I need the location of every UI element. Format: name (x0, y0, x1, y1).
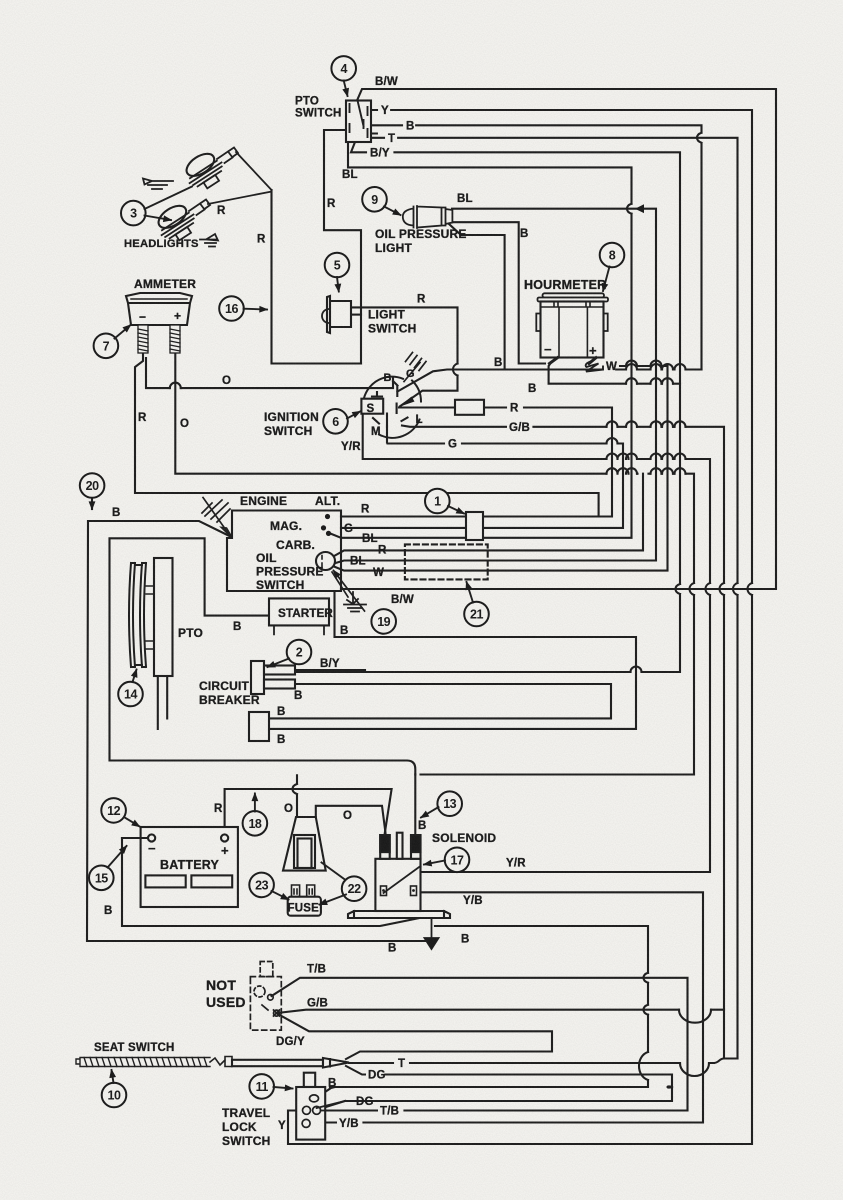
battery box (141, 827, 238, 907)
callout circle 21 (464, 602, 489, 627)
wire B ignition ground line to PTO B vertical (398, 370, 702, 392)
label T background (396, 1058, 407, 1072)
wire G/B bumps (607, 421, 686, 427)
leader line oil pressure switch to ground (332, 572, 348, 597)
headlight lower tail and wire (189, 192, 272, 216)
solenoid body (375, 859, 420, 911)
wire B net notch at T crossing (697, 133, 702, 143)
callout arrow 4 (344, 81, 348, 97)
wire Y/B travel lock lead (306, 1121, 312, 1124)
wire B net PTO down to ignition B line (371, 125, 702, 369)
label Y/B background (337, 1118, 362, 1132)
oil pressure switch (316, 552, 335, 570)
travel lock TB lead (321, 1110, 330, 1112)
callout arrow 14 (133, 670, 137, 683)
wire B solenoid base ground line (122, 838, 648, 1087)
label R background (508, 402, 519, 416)
solenoid base (348, 911, 450, 918)
fuse body (288, 897, 321, 916)
wire T/B NOT USED to travel lock (272, 978, 688, 1111)
label Y background (379, 105, 390, 119)
callout arrow 1 (448, 506, 464, 514)
callout arrow 12 (124, 817, 140, 827)
callout arrow 2 (268, 659, 290, 668)
callout arrow 8 (603, 267, 610, 292)
wire B OPL riser (449, 224, 505, 370)
PTO pulley link (146, 586, 154, 649)
wire G bump (607, 438, 618, 443)
callout circle 22 (342, 876, 367, 901)
label B background (404, 120, 415, 134)
wire W hourmeter to engine W (334, 366, 668, 571)
callout circle 16 (219, 296, 244, 321)
hourmeter body (541, 302, 604, 358)
wire O y388 bump over ammeter right lead (170, 383, 181, 389)
connector 1 body (466, 512, 483, 540)
seat switch coil (76, 1058, 210, 1067)
ground symbol lower headlight (200, 234, 218, 247)
carburetor funnel (283, 817, 326, 871)
engine mount hatch (202, 500, 232, 538)
wire B/Y net PTO to circuit breaker (295, 142, 680, 672)
solenoid internal diagonal (384, 866, 421, 893)
travel lock plug (304, 1073, 315, 1087)
wire O funnel left riser (296, 775, 298, 817)
battery cells (145, 875, 185, 887)
callout circle 11 (249, 1074, 274, 1099)
wire O ammeter-left line to ignition B terminal (146, 358, 393, 388)
wire DG seat jog at 648 (668, 1086, 673, 1087)
wire BL vertical jog at OPL line (627, 204, 632, 214)
wire Y travel lock loop (288, 1111, 306, 1145)
wire O funnel right to solenoid post (316, 806, 386, 833)
label T background (386, 133, 397, 147)
wire B hourmeter bumps (626, 378, 673, 384)
wire W bumps (626, 361, 662, 367)
label B/Y background (368, 147, 393, 161)
callout circle 13 (437, 791, 462, 816)
wire O funnel left jog (293, 784, 298, 794)
callout circle 20 (80, 473, 105, 498)
wire R ammeter across to engine ALT R (135, 354, 599, 517)
wire B connector lower to hourmeter-B riser (269, 592, 636, 729)
ammeter screw terminals (138, 325, 180, 353)
PTO switch lever and ticks (350, 101, 378, 138)
wire B solenoid vertical jogs (644, 973, 649, 1015)
callout circle 10 (102, 1083, 127, 1108)
battery minus lead (122, 837, 148, 839)
wire G/B ignition to NOT USED vertical (402, 426, 724, 1059)
wire Y/R ignition S to solenoid (363, 414, 710, 872)
starter bottom ticks (274, 625, 324, 634)
callout circle 2 (287, 640, 312, 665)
wire Y vertical jog at 589 (748, 583, 753, 595)
callout circle 18 (243, 811, 268, 836)
callout arrow 10 (112, 1070, 114, 1083)
wire BL oil pressure light net to engine oil switch (334, 209, 656, 564)
wire G/B NOT USED line (277, 1010, 724, 1013)
wire DG/Y NOT USED to seat switch tip (277, 1014, 552, 1060)
callout arrow 6 (347, 412, 360, 419)
travel lock body (296, 1087, 325, 1140)
callout arrow 11 (274, 1087, 293, 1089)
wire R net PTO switch left side to light circuit (324, 130, 361, 364)
callout circle 14 (118, 682, 143, 707)
wire B ignition line bumps (626, 364, 686, 369)
callout arrow 7 (115, 325, 131, 339)
wire R branch into light switch (351, 314, 361, 316)
label DG background (366, 1069, 384, 1083)
resistor body (455, 400, 484, 415)
callout arrow 16 (244, 308, 268, 311)
callout arrow 22 (320, 863, 347, 905)
wire Y/R vertical jog at 589 (706, 583, 711, 595)
wire T big hop arc (680, 1063, 709, 1076)
callout circle 17 (445, 848, 470, 873)
PTO pulley (129, 563, 146, 667)
wire Y/B solenoid to travel lock (312, 892, 703, 1122)
solenoid bottom terminals (381, 886, 417, 896)
wire Y/R bumps (607, 454, 686, 459)
wire R light switch output to ignition (351, 307, 458, 406)
wire R light switch jog at B line (453, 364, 458, 376)
wire B/W net PTO to right bus and engine (341, 89, 776, 589)
callout circle 23 (249, 873, 274, 898)
callout circle 12 (101, 798, 126, 823)
engine terminal dots (321, 514, 331, 536)
wire G/B big hop arc (679, 1010, 711, 1023)
callout arrow 21 (467, 582, 474, 603)
headlight upper tail and wire (217, 148, 272, 191)
wire DG seat switch to travel lock (316, 1066, 672, 1110)
wire B circuit breaker to connector (269, 684, 611, 718)
wire R battery riser to solenoid post (225, 789, 392, 835)
wire B PTO box and starter feed (110, 538, 416, 774)
wire B solenoid big left arc at seat wires (639, 1052, 648, 1080)
starter box (269, 598, 329, 625)
engine box (227, 511, 341, 592)
wire R oil pressure switch riser (335, 474, 643, 556)
callout circle 4 (331, 56, 356, 81)
callout circle 9 (362, 187, 387, 212)
seat switch tip (323, 1058, 349, 1068)
wire R light switch arrowhead at ignition terminal (399, 397, 415, 407)
inline connector body (249, 712, 269, 741)
solenoid posts (380, 833, 420, 859)
label W background (604, 361, 615, 375)
label T/B background (378, 1105, 403, 1119)
callout circle 6 (323, 409, 348, 434)
oil pressure light bulb (403, 206, 453, 228)
callout circle 7 (94, 334, 119, 359)
wire T vertical jog at 589 (733, 583, 738, 595)
wire R ignition resistor to engine ALT R (341, 408, 612, 517)
wire B/Y vertical jog at 589 (676, 584, 681, 594)
wire G ignition to engine MAG G (341, 427, 623, 528)
callout circle 1 (425, 489, 450, 514)
dashed box 21 (405, 544, 488, 579)
ground symbol B/W (344, 592, 366, 612)
callout circle 5 (325, 253, 350, 278)
ignition ground hatch (404, 353, 426, 382)
seat switch link (210, 1057, 232, 1067)
wire O bumps (607, 468, 686, 473)
hourmeter terminal wedges (550, 358, 597, 364)
wire B solenoid plunger drop (414, 775, 416, 836)
seat switch rod (232, 1060, 323, 1066)
callout arrow 5 (337, 277, 339, 292)
leader line 19 to oil pressure switch (334, 571, 365, 612)
PTO switch body (346, 101, 371, 143)
callout arrow 3 (145, 187, 193, 221)
ground symbol upper headlight (143, 179, 173, 190)
headlight lower (152, 199, 201, 247)
label G/B background (507, 422, 532, 436)
wire R headlight loop (272, 190, 362, 364)
wire B/Y circuit breaker lead (295, 669, 365, 671)
callout arrow 18 (254, 794, 256, 812)
wire B travel lock lead (316, 1087, 335, 1098)
battery terminals (148, 834, 155, 841)
callout arrow 9 (384, 207, 401, 216)
label G background (446, 438, 457, 452)
travel lock DG lead (317, 1101, 345, 1108)
wire T/B travel lock lead (316, 1109, 320, 1111)
wire T net PTO to seat switch (371, 138, 738, 1059)
wire B/Y hump at connector vertical (631, 667, 642, 673)
wire O ammeter down and across to solenoid top line (175, 353, 694, 775)
circuit breaker body (251, 661, 264, 694)
callout arrow 17 (424, 861, 445, 865)
wire Y net PTO to travel lock (300, 110, 752, 1144)
wire B left outer loop to engine and ground (87, 521, 427, 941)
wire B circle20 arrow (91, 497, 93, 509)
leader line hatch to engine corner (203, 498, 230, 536)
hourmeter inner lines (541, 303, 604, 358)
wire G/B vertical jog at 589 (720, 583, 725, 595)
hourmeter top plates (543, 293, 605, 297)
wire OPL BL arrow at BL vertical (635, 204, 644, 213)
callout arrow 23 (272, 891, 289, 900)
headlight upper (180, 147, 229, 195)
callout arrow 13 (421, 807, 439, 818)
wire T seat switch line (349, 1059, 738, 1064)
hourmeter side tabs (536, 314, 607, 332)
wire B PTO leads to connector (158, 676, 167, 729)
callout circle 15 (89, 866, 114, 891)
NOT USED dashed connector (250, 962, 281, 1031)
ignition switch S box (361, 399, 383, 414)
callout circle 19 (371, 609, 396, 634)
PTO body bar (154, 558, 173, 676)
ground symbol solenoid (425, 918, 439, 949)
ignition switch circle arcs (364, 377, 421, 438)
ignition switch contacts (372, 381, 408, 427)
wire O vertical jog at 589 (690, 583, 695, 595)
callout arrow 15 (108, 846, 127, 868)
wire B hourmeter minus line (549, 363, 680, 384)
callout circle 8 (600, 243, 625, 268)
light switch body (327, 296, 351, 333)
wire BL net PTO to engine BL (330, 142, 632, 538)
wire W zigzag at hourmeter plus (586, 361, 603, 372)
travel lock terminals (302, 1095, 321, 1128)
callout circle 3 (121, 201, 146, 226)
ammeter body (126, 293, 192, 325)
wire B OPL cap to hourmeter minus (452, 222, 545, 363)
